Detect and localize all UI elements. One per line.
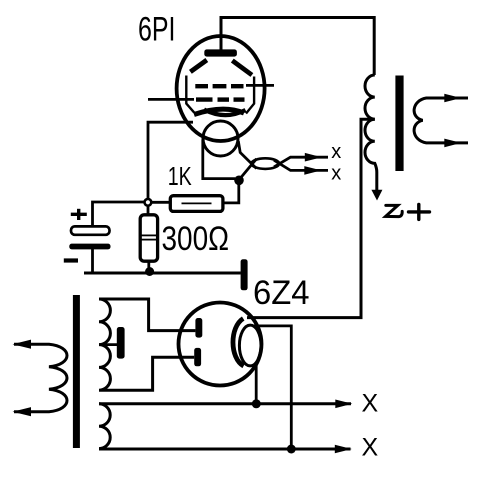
V2 anode bar lower [194, 348, 201, 366]
V1 control grid dashes [196, 97, 245, 101]
V1 heater stem right [238, 141, 256, 169]
heater line lower (X) [99, 448, 351, 451]
label 1K [168, 161, 192, 191]
V2 heater wire right [253, 326, 291, 449]
V1 screen grid stub [246, 84, 274, 87]
V2 anode bar upper [195, 318, 202, 338]
capacitor C1 negative lead [91, 249, 94, 273]
label 6Z4 [253, 274, 310, 312]
minus sign of C1 [64, 258, 78, 262]
V2 cathode arc [233, 319, 244, 367]
label B plus (yi+) [386, 204, 430, 219]
chassis ground bar [241, 259, 248, 290]
T2 mains arrow lower [13, 407, 32, 416]
V2 heater loop [239, 325, 261, 366]
T1 core [395, 76, 403, 172]
twisted pair upper right wire [274, 157, 328, 167]
junction dot below R2 [145, 267, 154, 276]
svg-text:6PI: 6PI [138, 10, 176, 48]
twisted pair lower left wire [241, 159, 257, 178]
tube V1 6P1 envelope [177, 36, 265, 141]
T2 HV center tap [99, 343, 117, 346]
twisted pair eye [251, 158, 279, 169]
capacitor C1 top plate [71, 226, 110, 234]
heater line upper (X) [99, 402, 351, 405]
V1 heater stem left [203, 140, 235, 179]
junction dot lower X line [287, 445, 296, 454]
label x filament lower [331, 163, 341, 185]
resistor R1 1K body [170, 196, 223, 212]
label 300 ohm [162, 220, 230, 258]
rectifier V2 6Z4 envelope [179, 303, 262, 386]
svg-text:300Ω: 300Ω [162, 220, 230, 258]
T2 mains primary winding [14, 344, 67, 412]
output transformer T1 primary winding [365, 75, 377, 191]
capacitor C1 bottom plate [69, 244, 110, 250]
V1 cathode wire to bias network [148, 122, 193, 198]
T2 HV secondary winding and leads to rectifier plates [99, 299, 195, 390]
ground bar at center tap [117, 327, 125, 359]
T2 mains arrow upper [13, 340, 32, 349]
T1 secondary winding [414, 98, 468, 143]
svg-text:1K: 1K [168, 161, 192, 191]
plus sign of C1 [71, 209, 87, 220]
junction ring node [145, 199, 152, 206]
label X lower [362, 434, 379, 462]
resistor R1 1K leads [152, 184, 239, 203]
V2 cathode down lead [255, 363, 258, 404]
V1 beam plate right [232, 61, 254, 114]
label 6P1 [138, 10, 176, 48]
T2 heater winding [99, 404, 110, 449]
V1 heater circle [203, 121, 238, 156]
T1 secondary arrow lower [444, 139, 461, 148]
V1 anode bar [204, 49, 237, 56]
svg-text:6Z4: 6Z4 [253, 274, 310, 312]
junction dot cathode-heater [234, 176, 244, 186]
svg-text:X: X [362, 434, 379, 462]
V1 screen grid dashes [195, 84, 243, 88]
wire B plus riser from rectifier [247, 119, 375, 317]
junction dot upper X line [252, 399, 261, 408]
filament arrow upper [305, 153, 322, 162]
resistor R2 300ohm leads [147, 206, 151, 271]
twisted pair lower right wire [274, 160, 328, 170]
V1 beam plate left [186, 60, 207, 113]
V1 cathode [194, 109, 246, 115]
label X upper [362, 390, 379, 418]
wire anode to output transformer [221, 18, 374, 76]
label x filament upper [331, 141, 341, 163]
svg-text:X: X [362, 390, 379, 418]
ground rail wire [84, 272, 241, 275]
X line arrow upper [335, 400, 352, 409]
capacitor C1 positive lead [93, 202, 145, 227]
B plus arrow down [371, 190, 382, 201]
svg-text:x: x [331, 163, 341, 185]
resistor R2 300ohm body [140, 215, 157, 261]
svg-text:x: x [331, 141, 341, 163]
V1 control grid stub [148, 98, 194, 101]
X line arrow lower [335, 445, 352, 454]
power transformer T2 core [73, 295, 80, 448]
filament arrow lower [304, 166, 321, 175]
T1 secondary arrow upper [444, 94, 461, 103]
